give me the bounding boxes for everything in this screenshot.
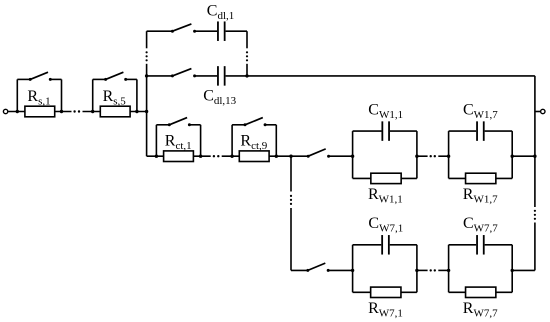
wire: [291, 155, 308, 157]
resistor R_ct,1: [164, 151, 194, 162]
switch (parallel with R_s,5): [104, 72, 127, 81]
junction: [351, 155, 354, 158]
wire: [92, 79, 94, 111]
capacitor C_W7,1: [382, 235, 389, 255]
wire: [449, 291, 513, 293]
wire: [222, 155, 291, 157]
resistor R_W1,1: [371, 173, 401, 183]
svg-text:CW7,1: CW7,1: [368, 215, 403, 234]
svg-text:RW1,1: RW1,1: [368, 186, 403, 205]
junction: [533, 155, 536, 158]
wire: [511, 131, 513, 178]
capacitor C_W7,7: [477, 235, 484, 255]
resistor R_s,5: [100, 106, 130, 117]
wire: [449, 177, 513, 179]
wire: [195, 30, 218, 32]
junction: [275, 155, 278, 158]
terminal (right port): [541, 109, 545, 113]
wire: [93, 78, 106, 80]
wire: [417, 155, 428, 157]
junction: [351, 269, 354, 272]
wire: [291, 269, 308, 271]
junction: [16, 110, 19, 113]
switch (series with W7 branch): [306, 263, 329, 272]
svg-text:CW7,7: CW7,7: [463, 215, 498, 234]
svg-text:Rs,1: Rs,1: [27, 88, 50, 107]
label R_ct,1: [165, 132, 192, 151]
wire: [50, 78, 61, 80]
label C_W1,7: [463, 102, 498, 121]
wire: [231, 125, 233, 156]
wire: [200, 125, 202, 156]
label C_W7,7: [463, 215, 498, 234]
wire: [195, 75, 218, 77]
wire: [146, 31, 148, 48]
capacitor C_W1,1: [382, 121, 389, 141]
wire: [226, 30, 247, 32]
junction: [135, 110, 138, 113]
wire (ellipsis continuation): [290, 195, 292, 205]
wire: [246, 64, 248, 76]
wire: [156, 124, 169, 126]
label R_W1,7: [463, 186, 498, 205]
junction: [415, 269, 418, 272]
switch (parallel with R_ct,9): [244, 118, 267, 127]
junction: [145, 74, 148, 77]
wire: [416, 131, 418, 178]
wire: [147, 75, 173, 77]
wire: [390, 244, 417, 246]
label R_W7,1: [368, 300, 403, 319]
wire: [438, 269, 448, 271]
label R_ct,9: [240, 132, 267, 151]
wire (ellipsis continuation): [146, 51, 148, 61]
wire: [147, 30, 173, 32]
wire (ellipsis continuation): [213, 155, 220, 157]
wire: [8, 111, 71, 113]
wire (ellipsis continuation): [430, 269, 436, 271]
wire: [534, 223, 536, 271]
wire: [535, 111, 540, 113]
wire: [265, 124, 276, 126]
resistor R_ct,9: [239, 151, 269, 162]
wire: [417, 269, 428, 271]
wire: [16, 79, 18, 111]
junction: [447, 269, 450, 272]
svg-text:Cdl,1: Cdl,1: [207, 3, 234, 22]
wire: [353, 177, 417, 179]
wire: [147, 155, 211, 157]
junction: [199, 155, 202, 158]
junction: [155, 155, 158, 158]
wire: [353, 291, 417, 293]
wire: [449, 130, 477, 132]
wire: [189, 124, 200, 126]
label R_s,1: [27, 88, 50, 107]
wire: [352, 131, 354, 178]
wire: [232, 124, 245, 126]
wire: [17, 78, 30, 80]
svg-text:Rct,1: Rct,1: [165, 132, 192, 151]
label C_dl,1: [207, 3, 234, 22]
wire: [449, 244, 477, 246]
svg-text:Cdl,13: Cdl,13: [203, 88, 236, 107]
wire: [512, 155, 535, 157]
wire: [534, 76, 536, 207]
resistor R_W7,7: [466, 287, 496, 297]
label R_s,5: [103, 88, 127, 107]
wire: [438, 155, 448, 157]
node B (Warburg branch node): [289, 155, 292, 158]
svg-text:CW1,1: CW1,1: [368, 102, 403, 121]
wire: [61, 79, 63, 111]
junction: [60, 110, 63, 113]
svg-text:RW7,1: RW7,1: [368, 300, 403, 319]
wire: [290, 208, 292, 270]
resistor R_W1,7: [466, 173, 496, 183]
junction: [415, 155, 418, 158]
switch (parallel with R_ct,1): [168, 118, 191, 127]
label C_W1,1: [368, 102, 403, 121]
wire: [416, 245, 418, 292]
switch (series with C_dl,1): [171, 24, 196, 33]
wire: [126, 78, 137, 80]
wire: [83, 111, 147, 113]
wire (ellipsis continuation): [534, 210, 536, 220]
resistor R_s,1: [25, 106, 55, 117]
wire: [353, 130, 382, 132]
capacitor C_dl,1: [218, 21, 225, 41]
terminal (left port): [3, 109, 7, 113]
switch (parallel with R_s,1): [29, 72, 52, 81]
junction: [511, 155, 514, 158]
wire: [290, 156, 292, 191]
junction: [230, 155, 233, 158]
wire: [448, 131, 450, 178]
wire: [511, 245, 513, 292]
wire: [146, 64, 148, 156]
label R_W7,7: [463, 300, 498, 319]
wire: [448, 245, 450, 292]
wire: [353, 244, 382, 246]
wire: [352, 245, 354, 292]
wire: [329, 155, 353, 157]
wire: [485, 244, 513, 246]
svg-text:CW1,7: CW1,7: [463, 102, 498, 121]
wire: [328, 269, 352, 271]
svg-text:RW7,7: RW7,7: [463, 300, 498, 319]
wire (ellipsis continuation): [430, 155, 436, 157]
svg-text:Rct,9: Rct,9: [240, 132, 267, 151]
wire: [246, 31, 248, 48]
wire (ellipsis continuation): [73, 110, 80, 112]
wire: [155, 125, 157, 156]
capacitor C_W1,7: [477, 121, 484, 141]
capacitor C_dl,13: [218, 66, 225, 86]
svg-text:Rs,5: Rs,5: [103, 88, 127, 107]
junction: [511, 269, 514, 272]
resistor R_W7,1: [371, 287, 401, 297]
wire: [136, 79, 138, 111]
wire (ellipsis continuation): [246, 51, 248, 61]
label R_W1,1: [368, 186, 403, 205]
svg-text:RW1,7: RW1,7: [463, 186, 498, 205]
switch (series with W1 branch): [307, 149, 330, 158]
wire: [512, 269, 535, 271]
junction: [447, 155, 450, 158]
wire: [485, 130, 513, 132]
junction: [91, 110, 94, 113]
node A (main branch node): [145, 110, 148, 113]
wire: [275, 125, 277, 156]
label C_dl,13: [203, 88, 236, 107]
switch (series with C_dl,13): [171, 69, 196, 78]
wire: [226, 75, 535, 77]
wire: [390, 130, 417, 132]
junction: [245, 74, 248, 77]
label C_W7,1: [368, 215, 403, 234]
